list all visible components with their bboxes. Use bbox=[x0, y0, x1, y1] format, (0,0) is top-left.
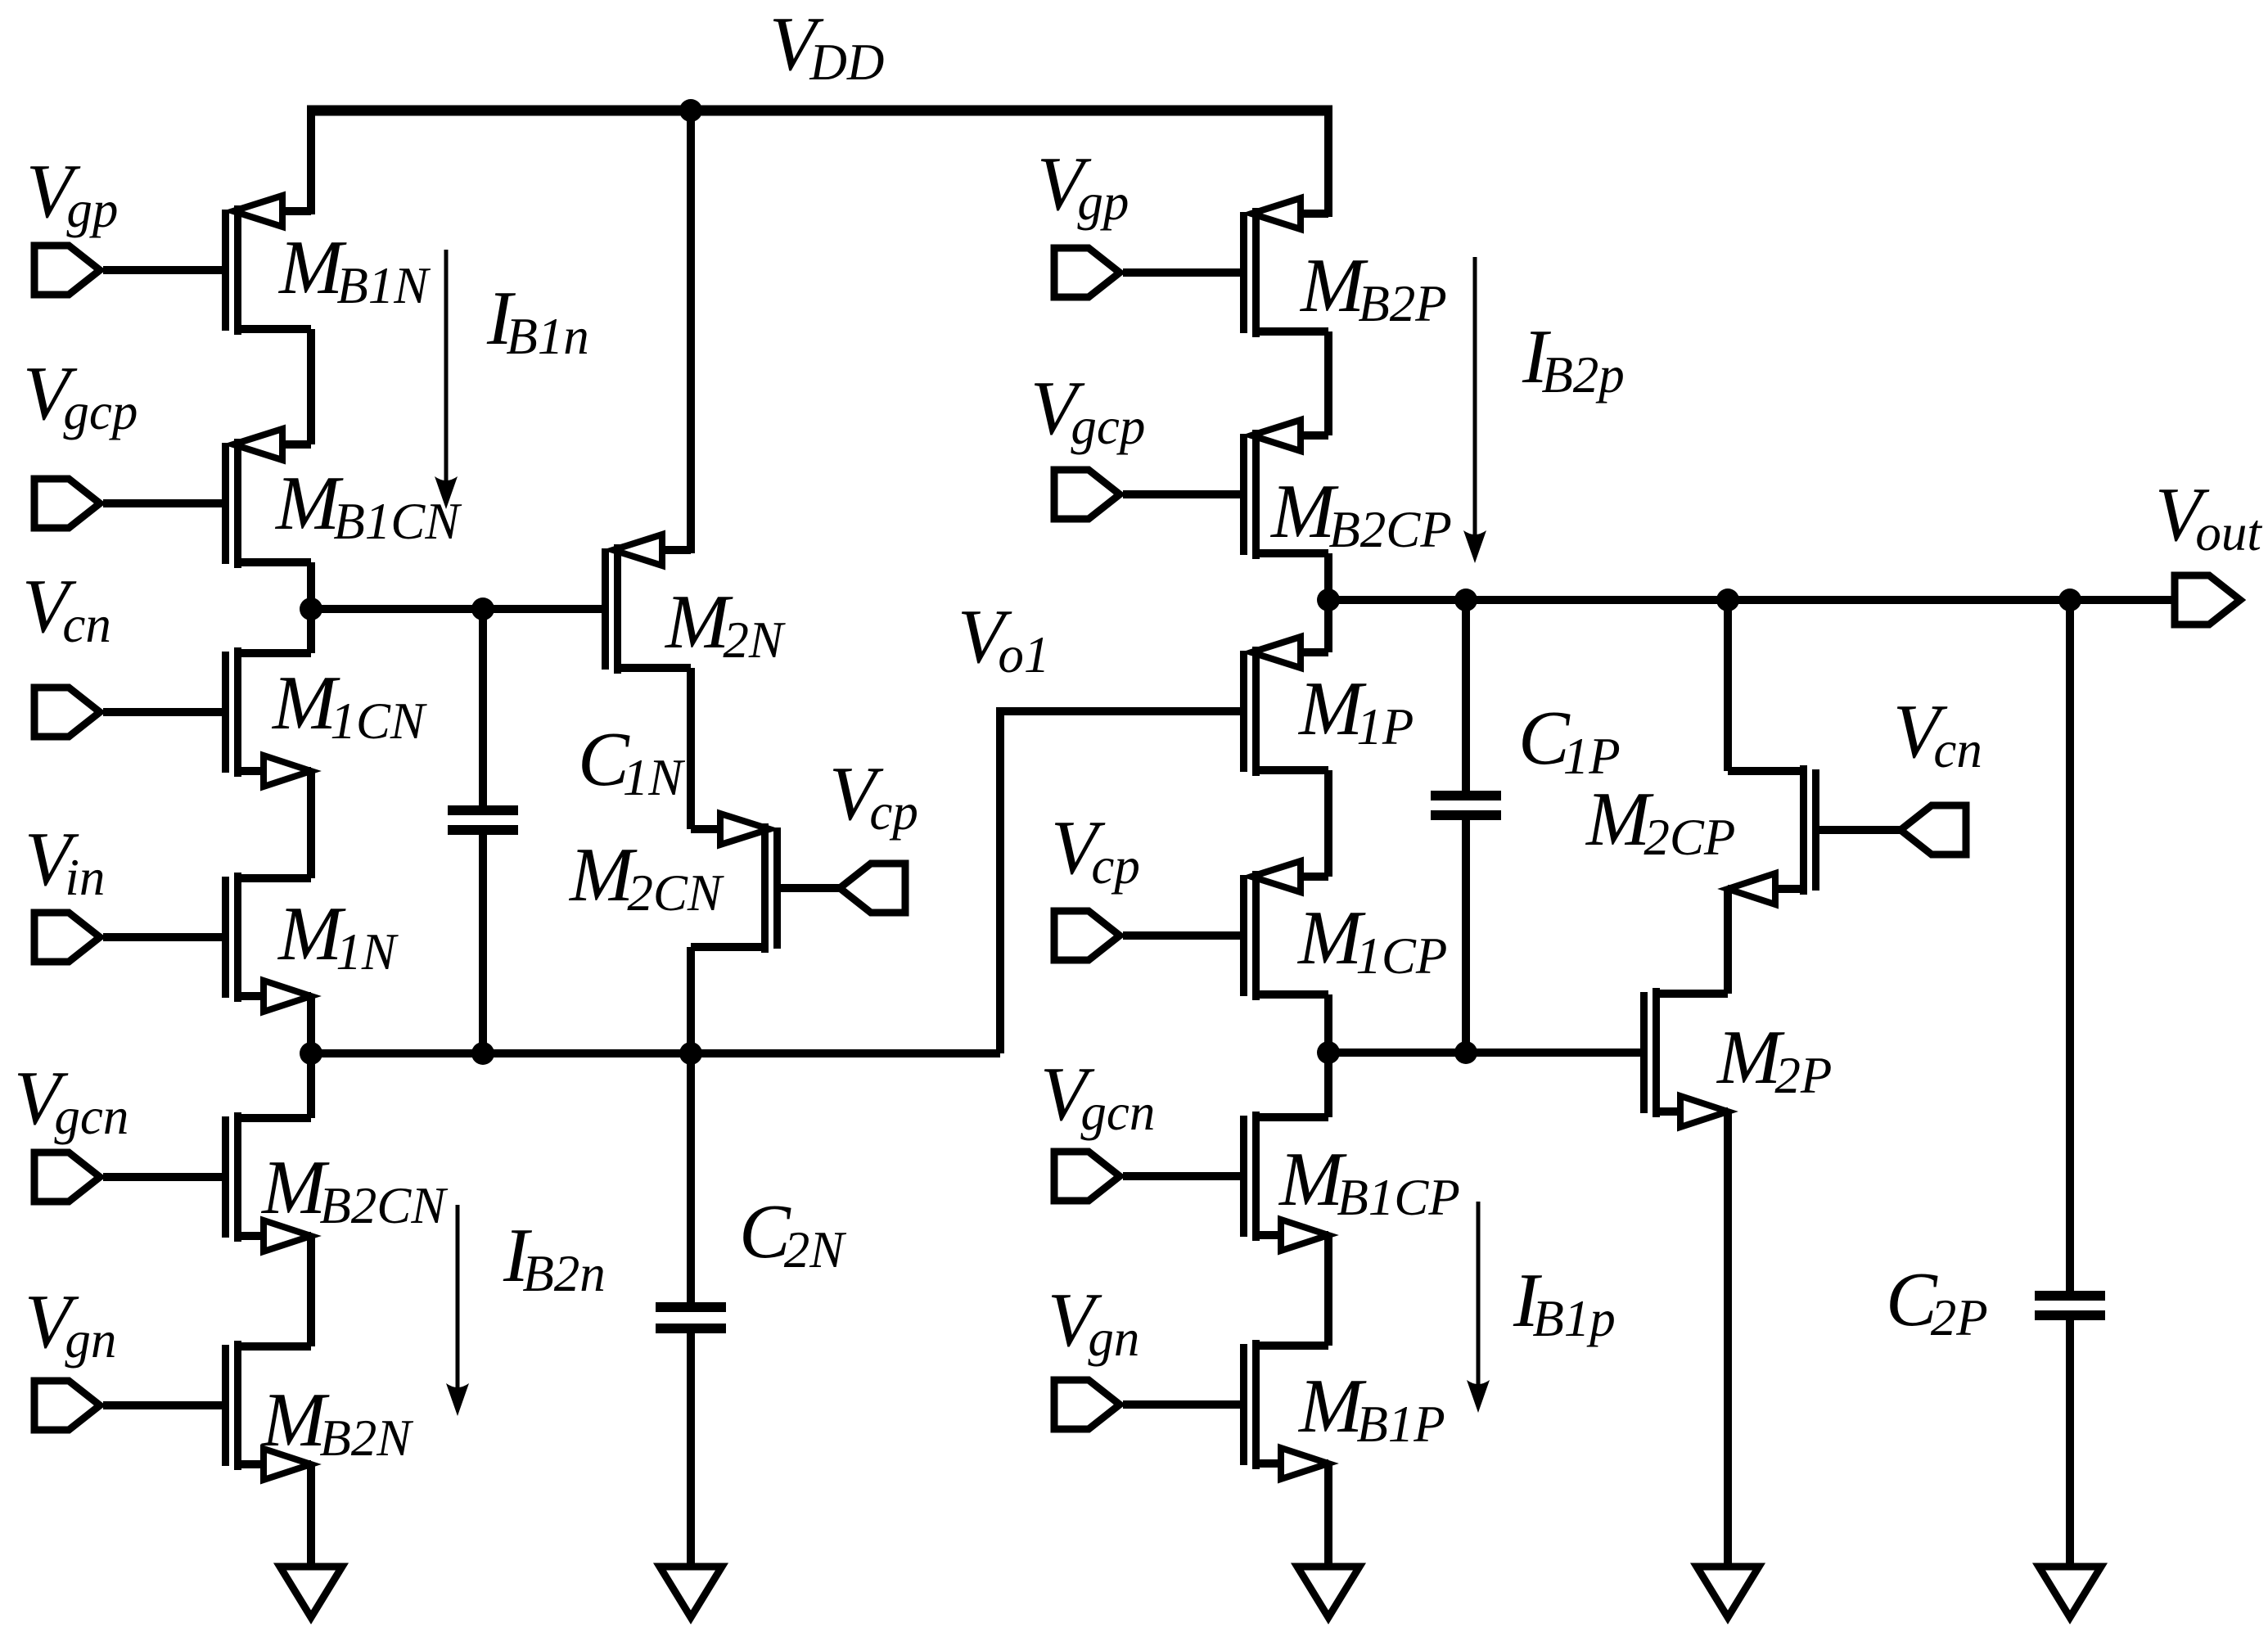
wire M_B1CP source to M_B1P drain bbox=[1324, 1235, 1332, 1346]
node Vout dot at right column bbox=[1317, 589, 1340, 611]
transistor M_B2CP (PMOS) bbox=[1240, 434, 1247, 555]
transistor M_1P (PMOS) bbox=[1240, 651, 1247, 772]
port Vcn (right, pointing left) bbox=[1901, 805, 1966, 855]
wire left column top (rail to M_B1N) bbox=[307, 106, 315, 214]
transistor M_B2P (PMOS) bbox=[1240, 212, 1247, 333]
current arrow I_B2n bbox=[456, 1205, 460, 1391]
wire M_B2P drain to M_B2CP source bbox=[1324, 331, 1332, 435]
wire C_1N bottom to node B bbox=[479, 835, 487, 1053]
node Vout dot at C_1P bbox=[1454, 589, 1477, 611]
port Vcp (right) bbox=[1054, 911, 1120, 960]
node B dot at C_2N column bbox=[679, 1042, 702, 1065]
wire M_1P drain to M_1CP source bbox=[1324, 770, 1332, 877]
wire Vgp to M_B2P gate bbox=[1123, 268, 1242, 277]
port Vgp (right) bbox=[1054, 248, 1120, 297]
node B dot left bbox=[300, 1042, 322, 1065]
wire node C to M_B1CP drain bbox=[1324, 1053, 1332, 1117]
port Vgcn (right) bbox=[1054, 1152, 1120, 1201]
port Vcn (left) bbox=[34, 688, 100, 737]
wire Vout to C_2P bbox=[2066, 600, 2074, 1292]
current arrow I_B2p bbox=[1473, 257, 1477, 539]
wire Vgcp to M_B1CN gate bbox=[103, 499, 223, 507]
transistor M_2P (NMOS) bbox=[1640, 992, 1648, 1113]
wire M_1CN source to M_1N drain bbox=[307, 771, 315, 878]
ground (right column) bbox=[1297, 1567, 1359, 1617]
wire M_B1N drain to M_B1CN source bbox=[307, 329, 315, 444]
wire M_2P source to ground bbox=[1724, 1112, 1732, 1570]
wire Vin to M_1N gate bbox=[103, 933, 223, 941]
transistor M_2CP (NMOS mirrored) bbox=[1812, 769, 1819, 891]
wire V_DD top rail bbox=[307, 106, 1332, 116]
wire M_2N drain to M_2CN source bbox=[687, 668, 695, 829]
node B dot at C_1N bbox=[471, 1042, 494, 1065]
wire V_o1 riser bbox=[1000, 711, 1242, 1053]
transistor M_B2CN (NMOS) bbox=[222, 1116, 229, 1238]
port Vgn (left) bbox=[34, 1381, 100, 1430]
wire M_B2CN source to M_B2N drain bbox=[307, 1236, 315, 1346]
node Vout dot at M_2CP column bbox=[1716, 589, 1739, 611]
port Vin (left) bbox=[34, 913, 100, 962]
wire Vcp to M_1CP gate bbox=[1123, 931, 1242, 940]
wire Vgp to M_B1N gate bbox=[103, 266, 223, 274]
wire M_B1P source to ground bbox=[1324, 1463, 1332, 1570]
capacitor C_1P bbox=[1431, 791, 1501, 800]
current arrow I_B1p bbox=[1477, 1202, 1481, 1388]
wire node B to C_2N bbox=[687, 1053, 695, 1304]
wire C_1P to node C bbox=[1462, 820, 1470, 1053]
node A wire (M_2N gate row) bbox=[311, 605, 603, 613]
transistor M_2CN (PMOS mirrored) bbox=[773, 828, 781, 949]
wire M_1CP drain to node C bbox=[1324, 994, 1332, 1053]
transistor M_1N (NMOS) bbox=[222, 877, 229, 998]
wire node A to M_1CN drain bbox=[307, 609, 315, 653]
wire Vout to C_1P bbox=[1462, 600, 1470, 792]
wire Vout to M_2CP drain bbox=[1724, 600, 1732, 771]
port Vgcp (left) bbox=[34, 479, 100, 528]
transistor M_B1CP (NMOS) bbox=[1240, 1116, 1247, 1237]
port Vgp (left) bbox=[34, 246, 100, 295]
wire M_B2CP drain to Vout node bbox=[1324, 553, 1332, 604]
ground (C_2N) bbox=[660, 1567, 722, 1617]
port Vgn (right) bbox=[1054, 1380, 1120, 1429]
transistor M_B1N (PMOS) bbox=[222, 210, 229, 331]
wire C_2N to ground bbox=[687, 1333, 695, 1570]
wire Vgn to M_B1P gate bbox=[1123, 1400, 1242, 1409]
ground (C_2P) bbox=[2039, 1567, 2101, 1617]
wire Vgcp to M_B2CP gate bbox=[1123, 490, 1242, 498]
node V_DD junction dot bbox=[679, 99, 702, 122]
wire Vgn to M_B2N gate bbox=[103, 1401, 223, 1409]
node A dot left bbox=[300, 598, 322, 620]
wire Vcn to M_1CN gate bbox=[103, 708, 223, 716]
wire C_2P to ground bbox=[2066, 1320, 2074, 1570]
node A dot at C_1N bbox=[471, 598, 494, 620]
wire Vout rail bbox=[1328, 596, 2173, 604]
port Vout (output) bbox=[2175, 575, 2240, 625]
wire Vgcn to M_B2CN gate bbox=[103, 1173, 223, 1181]
wire M_B2N source to ground bbox=[307, 1464, 315, 1570]
wire M_2N source riser bbox=[687, 110, 695, 553]
node Vout dot at C_2P bbox=[2058, 589, 2081, 611]
transistor M_2N (PMOS) bbox=[602, 548, 609, 670]
ground (left column) bbox=[280, 1567, 342, 1617]
wire M_2CN gate to Vcp port bbox=[781, 884, 840, 892]
capacitor C_2P bbox=[2035, 1291, 2105, 1301]
wire node B to M_B2CN drain bbox=[307, 1053, 315, 1118]
capacitor C_1N bbox=[448, 805, 518, 815]
current arrow I_B1n bbox=[444, 250, 449, 485]
wire M_B1CN drain to node A bbox=[307, 562, 315, 613]
transistor M_1CP (PMOS) bbox=[1240, 875, 1247, 996]
wire node A to C_1N top bbox=[479, 609, 487, 807]
ground (M_2P) bbox=[1697, 1567, 1759, 1617]
transistor M_B2N (NMOS) bbox=[222, 1345, 229, 1466]
wire M_2CN drain to node B bbox=[687, 947, 695, 1053]
transistor M_B1P (NMOS) bbox=[1240, 1344, 1247, 1465]
wire M_2CP source to M_2P drain bbox=[1724, 889, 1732, 994]
port Vcp (middle, pointing left) bbox=[840, 864, 905, 913]
wire M_1N source to node B bbox=[307, 996, 315, 1053]
port Vgcp (right) bbox=[1054, 470, 1120, 519]
wire M_2CP gate to Vcn port bbox=[1819, 826, 1901, 834]
wire Vout node to M_1P source bbox=[1324, 600, 1332, 652]
wire Vgcn to M_B1CP gate bbox=[1123, 1172, 1242, 1180]
capacitor C_2N bbox=[656, 1302, 726, 1312]
node B wire (first stage output row) bbox=[311, 1049, 1000, 1057]
port Vgcn (left) bbox=[34, 1152, 100, 1202]
wire right column top (rail to M_B2P) bbox=[1324, 106, 1332, 217]
node C dot left bbox=[1317, 1041, 1340, 1064]
node C dot at C_1P bbox=[1454, 1041, 1477, 1064]
transistor M_B1CN (PMOS) bbox=[222, 443, 229, 564]
node C wire (M_2P gate row) bbox=[1328, 1048, 1642, 1057]
transistor M_1CN (NMOS) bbox=[222, 652, 229, 773]
